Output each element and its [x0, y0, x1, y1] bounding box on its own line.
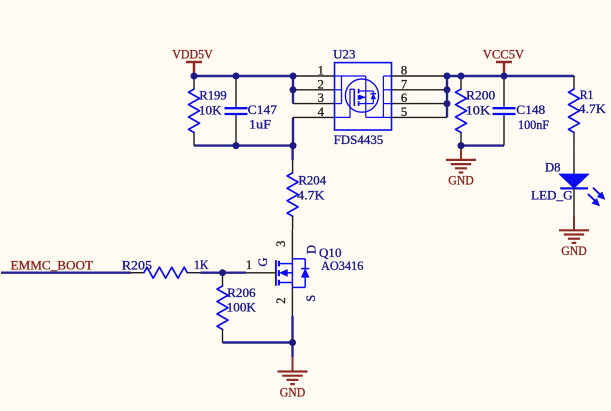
svg-text:4: 4 — [318, 105, 325, 119]
svg-text:D8: D8 — [545, 160, 561, 174]
svg-text:GND: GND — [561, 244, 587, 258]
svg-text:10K: 10K — [466, 103, 491, 117]
svg-text:4.7K: 4.7K — [579, 102, 606, 116]
svg-text:8: 8 — [401, 64, 407, 78]
svg-text:2: 2 — [318, 77, 324, 91]
svg-text:R205: R205 — [122, 259, 152, 273]
svg-text:R206: R206 — [227, 286, 256, 300]
svg-text:4.7K: 4.7K — [297, 189, 324, 203]
svg-text:7: 7 — [401, 77, 407, 91]
svg-text:5: 5 — [401, 105, 407, 119]
svg-text:GND: GND — [280, 385, 306, 399]
svg-text:100K: 100K — [227, 301, 256, 315]
svg-text:R204: R204 — [298, 173, 326, 187]
svg-text:1K: 1K — [194, 258, 209, 272]
svg-text:1: 1 — [246, 258, 252, 272]
svg-text:GND: GND — [448, 174, 474, 188]
svg-text:S: S — [304, 295, 318, 302]
svg-text:R199: R199 — [199, 89, 226, 103]
svg-text:EMMC_BOOT: EMMC_BOOT — [11, 259, 94, 273]
svg-text:G: G — [256, 258, 270, 267]
svg-text:VDD5V: VDD5V — [172, 48, 213, 62]
svg-text:2: 2 — [274, 298, 288, 304]
svg-text:100nF: 100nF — [518, 118, 549, 132]
svg-text:FDS4435: FDS4435 — [334, 133, 384, 147]
svg-text:C147: C147 — [248, 103, 277, 117]
svg-text:6: 6 — [401, 91, 407, 105]
svg-text:3: 3 — [318, 91, 324, 105]
svg-text:1uF: 1uF — [249, 117, 271, 131]
svg-text:10K: 10K — [199, 103, 222, 117]
svg-text:R1: R1 — [580, 88, 594, 102]
svg-text:R200: R200 — [466, 88, 495, 102]
svg-text:LED_G: LED_G — [531, 188, 573, 202]
svg-text:VCC5V: VCC5V — [483, 48, 525, 62]
svg-text:AO3416: AO3416 — [321, 258, 364, 273]
svg-text:U23: U23 — [333, 47, 355, 61]
svg-text:D: D — [305, 245, 319, 254]
svg-text:C148: C148 — [516, 103, 545, 117]
svg-text:3: 3 — [274, 241, 288, 247]
svg-text:1: 1 — [318, 64, 324, 78]
